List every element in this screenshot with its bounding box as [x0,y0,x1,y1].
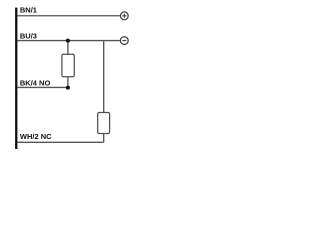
svg-text:BU/3: BU/3 [20,32,37,41]
svg-text:WH/2 NC: WH/2 NC [20,132,52,141]
svg-text:BK/4 NO: BK/4 NO [20,79,51,88]
svg-text:BN/1: BN/1 [20,6,37,15]
